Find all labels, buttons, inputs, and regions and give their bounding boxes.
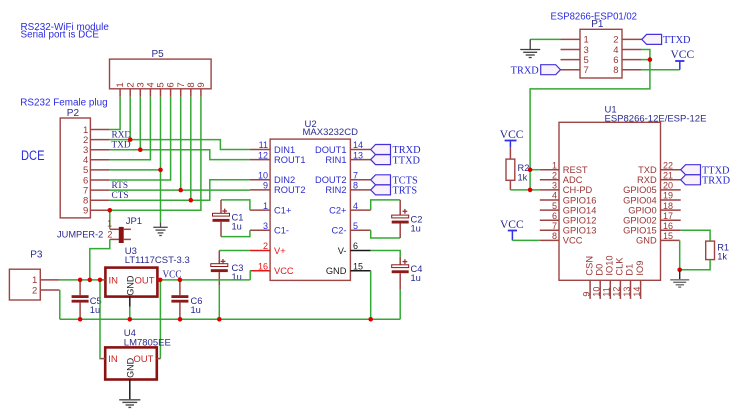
svg-text:LT1117CST-3.3: LT1117CST-3.3 <box>125 255 190 266</box>
VCC symbol above R2 <box>500 129 524 148</box>
U2 pin 4 C2+ <box>329 201 371 216</box>
wire CTS: P2-8 to P5-8 and U2 DIN2 <box>110 97 250 200</box>
U2 pin 5 C2- <box>332 221 371 236</box>
U2 pin 12 ROUT1 <box>250 150 306 165</box>
junction C6 top <box>178 278 183 283</box>
svg-text:11: 11 <box>602 287 612 296</box>
svg-text:16: 16 <box>663 221 673 231</box>
svg-text:8: 8 <box>353 181 358 191</box>
junction P5-8/CTS <box>189 198 194 203</box>
wire VCC rail U3 OUT to U2 <box>160 279 250 281</box>
wire JP1-2 to input rail <box>90 239 110 280</box>
junction P5-2/RXD <box>128 137 133 142</box>
flag TRXD at U2 pin14 <box>371 145 421 157</box>
svg-text:1u: 1u <box>232 222 242 232</box>
svg-text:V+: V+ <box>274 246 286 256</box>
svg-text:GND: GND <box>326 266 347 276</box>
svg-text:DIN1: DIN1 <box>274 145 295 155</box>
svg-text:C2+: C2+ <box>329 205 346 215</box>
svg-text:13: 13 <box>622 287 632 297</box>
svg-text:DIN2: DIN2 <box>274 175 295 185</box>
svg-text:OUT: OUT <box>135 275 155 286</box>
svg-text:D1: D1 <box>625 264 635 276</box>
svg-text:GND: GND <box>126 357 136 378</box>
junction C3 bottom <box>217 317 222 322</box>
svg-text:CH-PD: CH-PD <box>563 185 593 195</box>
wire P3-2 down to ground rail <box>59 290 61 319</box>
P5 pin 6 <box>166 82 177 97</box>
svg-text:RIN2: RIN2 <box>325 185 346 195</box>
wire TXD: P2-3 to P5-3 and U2 ROUT1 <box>110 97 250 160</box>
svg-text:19: 19 <box>663 191 673 201</box>
U1 pin 19 GPIO04 <box>623 191 681 206</box>
svg-text:D0: D0 <box>594 264 604 276</box>
P2 pin 6 <box>83 175 110 186</box>
svg-text:P5: P5 <box>152 49 165 60</box>
wire REST to vertical <box>530 169 540 171</box>
svg-text:4: 4 <box>552 191 557 201</box>
wire U2 pin3 to C1 bottom <box>221 230 250 236</box>
wire VCC to U1 pin8 <box>512 239 539 241</box>
P1 pin 3 <box>561 45 589 56</box>
svg-text:CLK: CLK <box>615 257 625 276</box>
svg-text:20: 20 <box>663 181 673 191</box>
svg-text:RIN1: RIN1 <box>325 155 346 165</box>
svg-text:GPIO02: GPIO02 <box>623 216 657 226</box>
svg-text:9: 9 <box>581 292 591 297</box>
jumper JP1 <box>57 216 142 242</box>
regulator U3 LT1117CST-3.3 <box>100 246 190 307</box>
svg-text:10: 10 <box>258 171 268 181</box>
svg-text:14: 14 <box>353 140 363 150</box>
U1 pin 15 GND <box>636 231 680 246</box>
capacitor C2 1u <box>392 200 423 238</box>
svg-text:13: 13 <box>353 150 363 160</box>
wire GPIO15 to R1 <box>681 230 710 241</box>
U1 pin 22 TXD <box>638 160 681 175</box>
svg-text:3: 3 <box>263 221 268 231</box>
svg-text:9: 9 <box>83 206 88 217</box>
P2 pin 2 <box>83 135 110 146</box>
svg-text:P2: P2 <box>67 108 80 119</box>
junction C6 bottom <box>178 317 183 322</box>
svg-text:2: 2 <box>107 230 112 240</box>
svg-text:IO9: IO9 <box>635 261 645 276</box>
wire U4 OUT up to VCC rail <box>159 280 161 359</box>
junction P1-4/P1-6 <box>648 57 653 62</box>
P1 pin 2 <box>613 35 642 46</box>
U2 pin 11 DIN1 <box>250 140 295 155</box>
U2 pin 1 C1+ <box>250 201 291 216</box>
svg-text:Serial port is DCE: Serial port is DCE <box>21 29 100 40</box>
flag TRXD at P1 pin7 <box>511 65 561 77</box>
VCC symbol at U1 pin8 <box>500 219 524 241</box>
P2 pin 5 <box>83 165 110 176</box>
svg-text:10: 10 <box>592 287 602 297</box>
svg-text:1k: 1k <box>717 252 727 262</box>
wire P1-4 to P1-6 junction <box>642 50 650 60</box>
junction P5-7/RTS <box>178 188 183 193</box>
U1 bottom pin 9 CSN <box>581 256 594 299</box>
capacitor C1 1u <box>213 200 244 237</box>
svg-text:ADC: ADC <box>563 175 583 185</box>
svg-text:VCC: VCC <box>563 236 583 246</box>
flag TTXD at U1 pin22 <box>681 165 730 177</box>
svg-text:GND: GND <box>636 236 657 246</box>
svg-text:TTXD: TTXD <box>393 155 421 166</box>
svg-text:DOUT1: DOUT1 <box>315 145 347 155</box>
svg-text:GPIO12: GPIO12 <box>563 216 597 226</box>
svg-text:1u: 1u <box>411 273 421 283</box>
junction U3 IN <box>98 278 103 283</box>
P2 pin 1 <box>83 125 110 136</box>
svg-text:15: 15 <box>663 231 673 241</box>
wire U2 pin2 V+ to C3 top <box>219 250 250 252</box>
P2 pin 3 <box>83 145 110 156</box>
svg-text:JUMPER-2: JUMPER-2 <box>57 230 103 241</box>
P5 pin 8 <box>186 82 197 97</box>
wire P2-4 to P5-4 <box>110 97 151 160</box>
junction U1 GND/R1 <box>677 268 682 273</box>
U2 pin 7 DOUT2 <box>315 171 371 186</box>
svg-text:7: 7 <box>552 221 557 231</box>
svg-text:22: 22 <box>663 160 673 170</box>
junction P5-5/GND <box>158 168 163 173</box>
junction P2-9/JP1 <box>108 208 113 213</box>
svg-text:VCC: VCC <box>671 49 695 61</box>
ground rail bottom <box>60 318 400 320</box>
U1 pin 21 RXD <box>637 171 681 186</box>
svg-text:P1: P1 <box>591 19 604 30</box>
junction C5 bottom <box>78 317 83 322</box>
flag TTXD at U2 pin13 <box>371 155 421 167</box>
svg-text:7: 7 <box>353 171 358 181</box>
wire P1-1 to ground <box>530 38 560 40</box>
svg-text:RXD: RXD <box>637 175 657 185</box>
svg-text:VCC: VCC <box>500 219 524 231</box>
U2 pin 8 RIN2 <box>325 181 370 196</box>
svg-text:CSN: CSN <box>584 256 594 276</box>
P2 pin 4 <box>83 155 110 166</box>
wire U2 pin16 VCC down to rail <box>249 271 251 280</box>
U2 pin 6 V- <box>338 241 371 256</box>
ground symbol below U1 <box>670 270 689 287</box>
P1 pin 1 <box>561 35 589 46</box>
svg-text:P3: P3 <box>30 250 43 261</box>
svg-text:8: 8 <box>613 65 618 76</box>
P1 pin 6 <box>613 55 642 66</box>
P2 pin 9 <box>83 206 110 217</box>
svg-text:OUT: OUT <box>133 354 153 365</box>
wire R1 bottom to ground junction <box>680 260 710 270</box>
U1 pin 8 VCC <box>540 231 583 246</box>
wire C3 bottom to ground rail <box>218 285 220 319</box>
flag TTXD at P1 pin2 <box>642 34 691 46</box>
P1 pin 5 <box>561 55 589 66</box>
wire P2-6 to P5-6 <box>110 97 171 180</box>
junction U2 GND rail <box>368 317 373 322</box>
svg-text:ROUT1: ROUT1 <box>274 155 306 165</box>
U1 pin 16 GPIO15 <box>623 221 681 236</box>
P5 pin 1 <box>115 82 126 97</box>
wire P3-1 to U3 IN rail <box>60 279 100 281</box>
svg-text:12: 12 <box>258 150 268 160</box>
wire U4 IN from input rail <box>99 280 101 359</box>
svg-text:DCE: DCE <box>21 148 45 163</box>
P1 pin 8 <box>613 65 642 76</box>
svg-text:GPIO14: GPIO14 <box>563 205 597 215</box>
svg-text:REST: REST <box>563 165 588 175</box>
wire P1-8 to VCC <box>642 69 680 71</box>
svg-text:6: 6 <box>552 211 557 221</box>
wire U2 pin6 V- to C4 top <box>371 251 401 257</box>
svg-text:2: 2 <box>263 241 268 251</box>
svg-text:4: 4 <box>353 201 358 211</box>
connector P1 <box>580 19 622 78</box>
svg-text:1: 1 <box>552 160 557 170</box>
U2 pin 9 ROUT2 <box>250 181 306 196</box>
U1 pin 18 GPIO0 <box>628 201 680 216</box>
junction P5-3/TXD <box>138 147 143 152</box>
resistor R2 1k <box>506 147 529 190</box>
wire RXD: P2-2 to P5-2 and U2 DIN1 <box>110 97 250 150</box>
U1 pin 1 REST <box>540 160 588 175</box>
flag TRTS at U2 pin8 <box>371 185 418 197</box>
flag TRXD at U1 pin21 <box>681 175 731 187</box>
svg-text:GPIO0: GPIO0 <box>628 205 656 215</box>
wire P2-5 to P5-5 and ground <box>110 97 161 223</box>
junction CH-PD <box>528 188 533 193</box>
svg-text:C1-: C1- <box>274 226 289 236</box>
U1 pin 5 GPIO14 <box>540 201 597 216</box>
svg-text:14: 14 <box>632 287 642 297</box>
svg-text:GPIO13: GPIO13 <box>563 226 597 236</box>
svg-text:2: 2 <box>32 285 37 296</box>
svg-text:18: 18 <box>663 201 673 211</box>
U2 pin 15 GND <box>326 261 371 276</box>
ground symbol DB9 pin5 <box>153 222 167 235</box>
svg-text:8: 8 <box>552 231 557 241</box>
op-amp U2 MAX3232CD body <box>270 119 358 281</box>
P5 pin 5 <box>156 82 167 97</box>
U1 bottom pin 11 IO10 <box>602 255 615 298</box>
svg-text:TRXD: TRXD <box>511 65 540 76</box>
svg-text:TRTS: TRTS <box>393 186 418 197</box>
U1 pin 4 GPIO16 <box>540 191 597 206</box>
svg-text:1u: 1u <box>191 305 201 315</box>
svg-text:16: 16 <box>258 261 268 271</box>
U1 pin 6 GPIO12 <box>540 211 597 226</box>
svg-text:5: 5 <box>353 221 358 231</box>
P2 pin 7 <box>83 185 110 196</box>
IC U1 body <box>559 122 661 280</box>
capacitor C6 1u <box>171 280 202 319</box>
U2 pin 16 VCC <box>250 261 294 276</box>
svg-text:5: 5 <box>552 201 557 211</box>
U2 pin 13 RIN1 <box>325 150 370 165</box>
svg-text:TTXD: TTXD <box>663 35 691 46</box>
wire P2-1 to P5-1 <box>110 97 120 130</box>
svg-text:1: 1 <box>263 201 268 211</box>
connector P2 <box>60 108 90 218</box>
P1 pin 7 <box>561 65 589 76</box>
svg-text:9: 9 <box>263 181 268 191</box>
P5 pin 4 <box>146 82 157 97</box>
junction JP1 branch <box>88 278 93 283</box>
P1 pin 4 <box>613 45 642 56</box>
svg-text:DOUT2: DOUT2 <box>315 175 347 185</box>
svg-text:C1+: C1+ <box>274 205 291 215</box>
svg-text:1u: 1u <box>90 305 100 315</box>
wire U2 pin5 to C2 bottom <box>371 230 401 238</box>
P5 pin 7 <box>176 82 187 97</box>
resistor R1 1k <box>706 241 729 262</box>
svg-text:GPIO15: GPIO15 <box>623 226 657 236</box>
svg-text:IO10: IO10 <box>605 255 615 275</box>
P2 pin 8 <box>83 196 110 207</box>
capacitor C5 1u <box>72 280 102 319</box>
svg-text:2: 2 <box>552 171 557 181</box>
U2 pin 14 DOUT1 <box>315 140 371 155</box>
junction U3 OUT / U4 OUT <box>158 278 163 283</box>
svg-text:GPIO05: GPIO05 <box>623 185 657 195</box>
U1 pin 3 CH-PD <box>540 181 593 196</box>
P5 pin 3 <box>135 82 146 97</box>
svg-text:15: 15 <box>353 261 363 271</box>
svg-text:MAX3232CD: MAX3232CD <box>303 127 359 138</box>
svg-text:IN: IN <box>108 354 118 365</box>
svg-text:21: 21 <box>663 171 673 181</box>
svg-text:TXD: TXD <box>638 165 657 175</box>
svg-text:C2-: C2- <box>332 226 347 236</box>
connector P3 <box>9 250 59 300</box>
svg-text:1: 1 <box>107 219 112 229</box>
U2 pin 3 C1- <box>250 221 289 236</box>
P5 pin 9 <box>196 82 207 97</box>
svg-text:RS232 Female plug: RS232 Female plug <box>20 98 107 109</box>
svg-text:LM7805EE: LM7805EE <box>124 337 171 348</box>
svg-text:GND: GND <box>126 275 136 296</box>
svg-text:IN: IN <box>109 275 119 286</box>
svg-text:JP1: JP1 <box>126 216 142 227</box>
capacitor C3 1u <box>211 251 244 286</box>
U1 bottom pin 10 DO <box>592 264 605 299</box>
svg-text:3: 3 <box>552 181 557 191</box>
svg-text:17: 17 <box>663 211 673 221</box>
svg-text:GPIO16: GPIO16 <box>563 195 597 205</box>
U1 bottom pin 12 CLK <box>612 257 625 299</box>
svg-text:V-: V- <box>338 246 347 256</box>
wire P2-9 to P5-9 and JP1 <box>110 97 201 229</box>
svg-text:VCC: VCC <box>274 266 294 276</box>
svg-text:6: 6 <box>353 241 358 251</box>
wire U2 pin4 to C2 top <box>371 200 401 210</box>
ground symbol below U4 <box>119 400 140 408</box>
wire R2 bottom to CH-PD <box>510 189 539 191</box>
svg-text:7: 7 <box>584 65 589 76</box>
U1 pin 17 GPIO02 <box>623 211 681 226</box>
wire C4 bottom to ground rail <box>399 289 401 319</box>
VCC symbol at P1 <box>671 49 695 69</box>
wire U1 GND down <box>679 240 681 269</box>
junction U3 GND <box>128 317 133 322</box>
U1 pin 2 ADC <box>540 171 583 186</box>
regulator U4 LM7805EE <box>100 328 170 399</box>
connector P5 <box>110 49 212 89</box>
svg-text:1u: 1u <box>411 224 421 234</box>
wire U3 GND to rail <box>129 307 131 320</box>
svg-text:12: 12 <box>612 287 622 297</box>
svg-text:9: 9 <box>196 82 207 87</box>
wire U2 pin1 to C1 top <box>221 200 250 210</box>
svg-text:GPIO04: GPIO04 <box>623 195 657 205</box>
U1 bottom pin 13 D1 <box>622 264 635 299</box>
flag TCTS at U2 pin7 <box>371 175 418 187</box>
junction REST <box>528 167 533 172</box>
U2 pin 10 DIN2 <box>250 171 295 186</box>
ground symbol at P1 <box>520 39 540 57</box>
svg-text:11: 11 <box>259 140 268 150</box>
U2 pin 2 V+ <box>250 241 286 256</box>
SECTION: wires-left <box>110 97 250 229</box>
svg-text:ROUT2: ROUT2 <box>274 185 306 195</box>
junction C5 top <box>78 278 83 283</box>
U1 pin 20 GPIO05 <box>623 181 681 196</box>
P5 pin 2 <box>125 82 136 97</box>
wire U2 pin15 GND down <box>370 271 372 320</box>
svg-text:TRXD: TRXD <box>702 176 731 187</box>
capacitor C4 1u <box>392 257 423 289</box>
svg-text:1k: 1k <box>518 172 528 182</box>
svg-text:VCC: VCC <box>500 129 524 141</box>
wire P1-6 down to U1 REST/CH-PD <box>530 60 650 190</box>
wire RTS: P2-7 to P5-7 and U2 ROUT2 <box>110 97 250 190</box>
U1 pin 7 GPIO13 <box>540 221 597 236</box>
U1 bottom pin 14 IO9 <box>632 261 645 299</box>
